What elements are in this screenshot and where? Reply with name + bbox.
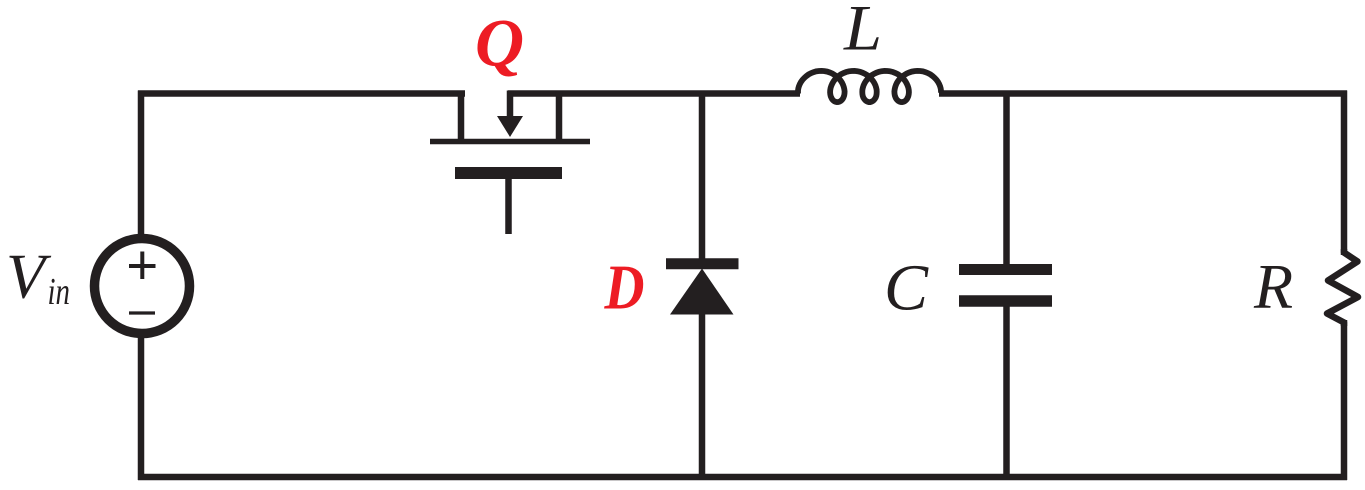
transistor Q drain lead bbox=[556, 91, 563, 142]
transistor Q source lead bbox=[458, 91, 465, 142]
wire right vertical lower (below resistor) bbox=[1341, 320, 1348, 480]
capacitor C top plate bbox=[959, 264, 1052, 275]
voltage source Vin circle bbox=[95, 239, 190, 334]
wire right vertical upper (above resistor) bbox=[1341, 91, 1348, 256]
transistor Q arrow shaft bbox=[507, 91, 514, 120]
wire diode branch bottom bbox=[699, 312, 706, 477]
label Vin bbox=[6, 241, 70, 314]
label D bbox=[604, 252, 645, 323]
wire diode branch top bbox=[699, 94, 706, 261]
wire top segment from inductor to right corner bbox=[939, 90, 1347, 97]
label C bbox=[884, 252, 929, 325]
label R bbox=[1253, 251, 1293, 322]
inductor L coil bbox=[798, 71, 941, 102]
svg-text:L: L bbox=[843, 0, 882, 65]
diode D triangle bbox=[670, 269, 734, 315]
transistor Q arrowhead bbox=[497, 116, 523, 137]
resistor R bbox=[1327, 249, 1358, 326]
label L bbox=[843, 0, 882, 65]
svg-text:V: V bbox=[6, 241, 52, 312]
wire top-left segment bbox=[138, 90, 465, 97]
transistor Q gate bar bbox=[455, 167, 562, 179]
wire capacitor branch top bbox=[1003, 94, 1010, 267]
transistor Q channel bar bbox=[430, 139, 590, 145]
wire top segment from MOSFET to inductor bbox=[508, 90, 800, 97]
wire capacitor branch bottom bbox=[1003, 305, 1010, 477]
label Q bbox=[475, 5, 524, 81]
capacitor C bottom plate bbox=[959, 295, 1052, 307]
wire bottom rail bbox=[138, 474, 1347, 481]
voltage source minus sign bbox=[129, 311, 155, 314]
svg-text:Q: Q bbox=[475, 5, 524, 81]
svg-text:D: D bbox=[604, 252, 645, 323]
svg-text:C: C bbox=[884, 252, 929, 325]
transistor Q gate lead bbox=[505, 179, 512, 234]
diode D cathode bar bbox=[666, 258, 739, 269]
wire left vertical (Vin bottom lead) bbox=[138, 337, 145, 480]
voltage source plus sign bbox=[129, 252, 156, 280]
svg-text:in: in bbox=[48, 271, 71, 313]
svg-text:R: R bbox=[1253, 251, 1293, 322]
wire left vertical (Vin top lead) bbox=[138, 91, 145, 237]
